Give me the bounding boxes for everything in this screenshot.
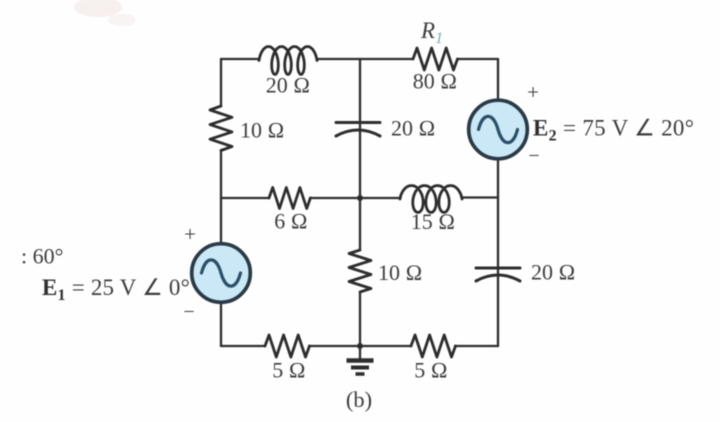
capacitor 20ohm middle, straight plate (336, 121, 380, 124)
sine wave E2 (479, 116, 518, 142)
svg-text:+: + (184, 222, 196, 246)
inductor 15ohm (400, 186, 462, 213)
svg-text:20 Ω: 20 Ω (531, 260, 575, 285)
wire middle rail center segment (310, 197, 400, 199)
resistor R1 80ohm (413, 48, 457, 70)
resistor 10ohm middle (349, 250, 371, 292)
wire bottom rail right segment (455, 345, 498, 347)
svg-text:10 Ω: 10 Ω (378, 260, 422, 285)
wire middle branch lower (359, 198, 361, 250)
wire bottom rail left segment (221, 345, 265, 347)
svg-text:5 Ω: 5 Ω (414, 358, 447, 383)
wire left rail mid (220, 150, 222, 243)
svg-text:(b): (b) (346, 387, 372, 412)
svg-text:20 Ω: 20 Ω (391, 116, 435, 141)
svg-text:5 Ω: 5 Ω (272, 358, 305, 383)
svg-text:6 Ω: 6 Ω (274, 209, 307, 234)
resistor 10ohm left (210, 106, 232, 151)
ground bars (347, 361, 374, 375)
inductor 20ohm top (259, 47, 317, 75)
wire left rail bottom (220, 303, 222, 346)
wire middle rail left segment (221, 197, 269, 199)
source E2 (469, 100, 528, 159)
capacitor 20ohm right, straight plate (476, 267, 520, 270)
wire middle rail right segment (462, 196, 498, 198)
wire top rail left segment (221, 58, 259, 60)
wire left rail top (220, 59, 222, 106)
wire right rail middle (497, 159, 499, 346)
junction node middle rail (357, 195, 363, 201)
resistor 6ohm (269, 188, 310, 209)
wire top rail right segment (458, 58, 498, 60)
svg-text:: 60°: : 60° (21, 244, 63, 269)
svg-text:−: − (528, 145, 539, 167)
junction node bottom rail (357, 343, 363, 349)
wire middle branch to bottom (359, 292, 361, 346)
ground stub (359, 346, 361, 359)
wire middle branch upper (359, 59, 361, 198)
source E1 (192, 244, 251, 303)
resistor 5ohm right (411, 335, 455, 357)
wire bottom rail center segment (309, 345, 411, 347)
svg-text:R1: R1 (420, 18, 443, 47)
svg-text:E2 = 75 V ∠ 20°: E2 = 75 V ∠ 20° (533, 116, 694, 145)
svg-text:+: + (527, 80, 539, 104)
svg-text:15 Ω: 15 Ω (411, 209, 455, 234)
svg-text:20 Ω: 20 Ω (266, 73, 310, 98)
capacitor 20ohm right, curved plate (476, 275, 520, 281)
svg-text:10 Ω: 10 Ω (240, 118, 284, 143)
svg-text:−: − (183, 301, 194, 323)
svg-text:E1 = 25 V ∠ 0°: E1 = 25 V ∠ 0° (42, 275, 190, 304)
resistor 5ohm left (265, 335, 309, 357)
wire right rail top (497, 59, 499, 100)
wire top rail middle segment (317, 58, 413, 60)
sine wave E1 (202, 260, 241, 286)
capacitor 20ohm middle, curved plate (336, 130, 380, 136)
faint smudge artifact top-left (74, 0, 122, 17)
svg-text:80 Ω: 80 Ω (413, 69, 457, 94)
